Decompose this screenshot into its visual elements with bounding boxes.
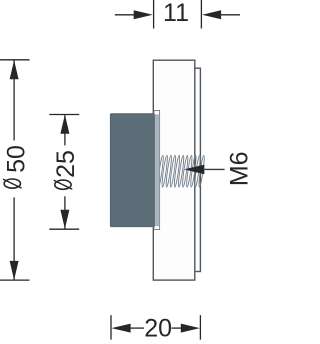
dimension D50 top arrow bbox=[10, 60, 19, 79]
svg-text:M6: M6 bbox=[226, 151, 253, 186]
svg-text:50: 50 bbox=[2, 145, 30, 173]
dimension D25 bottom tick bbox=[49, 228, 79, 230]
dimension D50 bottom arrow bbox=[10, 261, 19, 280]
dimension 20 right extension line bbox=[199, 315, 201, 339]
dimension D25 line upper bbox=[64, 115, 66, 146]
dimension D50 line lower bbox=[13, 197, 15, 280]
dimension 11 right extension line bbox=[200, 0, 202, 29]
dimension D25 bottom arrow bbox=[60, 210, 69, 229]
back disc bbox=[160, 68, 200, 271]
dimension text 11 bbox=[163, 0, 189, 27]
dimension text 20 bbox=[144, 314, 172, 342]
cylinder body bbox=[110, 114, 154, 227]
dimension text D50 digits bbox=[2, 145, 30, 173]
svg-text:25: 25 bbox=[52, 150, 80, 178]
front disc bbox=[153, 60, 195, 280]
dimension text D25 digits bbox=[52, 150, 80, 178]
label M6 bbox=[226, 151, 254, 186]
dimension 11 left arrow bbox=[115, 10, 153, 19]
dimension 20 left arrow bbox=[112, 324, 145, 333]
flange strip bbox=[154, 111, 160, 230]
dimension D50 line upper bbox=[13, 60, 15, 140]
thread bbox=[157, 155, 205, 187]
dimension D25 line lower bbox=[64, 196, 66, 229]
dimension D25 diameter symbol bbox=[54, 180, 73, 189]
dimension D50 bottom tick bbox=[0, 279, 30, 281]
svg-text:20: 20 bbox=[144, 314, 172, 342]
dimension D50 diameter symbol bbox=[3, 179, 22, 188]
dimension 11 right arrow bbox=[202, 10, 240, 19]
dimension D25 top tick bbox=[49, 114, 79, 116]
svg-text:11: 11 bbox=[163, 0, 189, 27]
dimension D50 top tick bbox=[0, 59, 30, 61]
dimension D25 top arrow bbox=[60, 115, 69, 134]
M6 leader arrow bbox=[184, 165, 225, 175]
dimension 20 left extension line bbox=[110, 315, 112, 339]
dimension 20 right arrow bbox=[172, 324, 200, 333]
dimension 11 left extension line bbox=[153, 0, 155, 29]
